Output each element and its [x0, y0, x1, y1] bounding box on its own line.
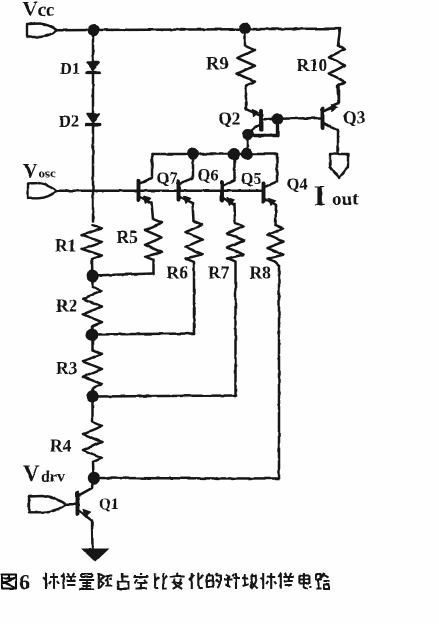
- wire Q2/Q3 base link: [278, 117, 322, 120]
- svg-text:Q1: Q1: [99, 496, 119, 513]
- label Q3: [343, 108, 366, 128]
- label R4: [50, 436, 72, 456]
- svg-text:R5: R5: [117, 227, 139, 247]
- node Q2 base / Q3 base junction: [272, 113, 284, 125]
- wire D1 to D2: [92, 73, 95, 115]
- svg-text:R6: R6: [167, 263, 189, 283]
- resistor R2: [83, 287, 102, 350]
- svg-text:I: I: [314, 180, 325, 212]
- svg-text:V: V: [23, 461, 40, 486]
- node R2/R3 junction: [86, 328, 98, 340]
- svg-text:Q3: Q3: [343, 108, 366, 128]
- resistor R1: [82, 225, 103, 287]
- wire R5 bottom to R1/R2 node: [93, 274, 154, 276]
- transistor Q5: [222, 154, 235, 223]
- input connector Vdrv: [29, 496, 67, 512]
- resistor R5: [145, 219, 162, 274]
- label Vdrv: [23, 461, 65, 486]
- label R9: [206, 55, 229, 75]
- wire R7 bottom to R3/R4 node: [93, 396, 236, 397]
- node at Vcc/D1 junction: [88, 24, 100, 36]
- svg-text:Q7: Q7: [157, 169, 178, 188]
- label Q2: [218, 109, 240, 129]
- label Iout: [314, 180, 359, 212]
- svg-text:Q4: Q4: [287, 175, 308, 194]
- svg-text:R3: R3: [56, 358, 78, 378]
- svg-text:6: 6: [19, 570, 30, 595]
- label Q1: [99, 496, 119, 513]
- label R3: [56, 358, 78, 378]
- resistor R4: [83, 422, 102, 478]
- svg-text:V: V: [23, 0, 38, 21]
- label Vosc: [23, 160, 56, 182]
- transistor Q7: [139, 154, 154, 219]
- svg-text:Q2: Q2: [218, 109, 240, 129]
- transistor Q6: [179, 154, 194, 221]
- transistor Q2 (diode-connected PNP): [246, 109, 277, 135]
- label Q7: [157, 169, 178, 188]
- resistor R6: [186, 221, 203, 334]
- svg-text:R7: R7: [208, 263, 230, 283]
- resistor R10: [329, 45, 345, 103]
- label R5: [117, 227, 139, 247]
- wire R8 bottom to R4/Q1 node: [94, 477, 279, 480]
- resistor R3: [83, 350, 102, 422]
- svg-text:D2: D2: [59, 112, 79, 131]
- svg-text:D1: D1: [60, 59, 80, 78]
- label R2: [56, 296, 77, 316]
- label Vcc: [23, 0, 55, 21]
- label Q5: [241, 169, 262, 188]
- node rail at Q2 drop: [241, 148, 253, 160]
- svg-text:R1: R1: [55, 236, 76, 256]
- svg-text:out: out: [332, 189, 359, 210]
- wire R6 bottom to R2/R3 node: [92, 334, 194, 335]
- node Q2 collector tie: [243, 129, 254, 140]
- label Q6: [198, 166, 219, 185]
- label D2: [59, 112, 79, 131]
- diode D1: [87, 62, 100, 73]
- label R7: [208, 263, 230, 283]
- node at R9 top: [239, 23, 251, 35]
- node R1/R2 junction: [86, 270, 98, 282]
- svg-text:R9: R9: [206, 55, 229, 75]
- svg-text:R2: R2: [56, 296, 77, 316]
- wire D2 down to R1 (crosses Vosc line): [92, 125, 95, 222]
- ground: [81, 549, 110, 563]
- wire Vdrv to Q1 base: [67, 503, 78, 506]
- wire Vcc node down to D1: [92, 30, 95, 62]
- svg-text:Q6: Q6: [198, 166, 219, 185]
- svg-text:cc: cc: [38, 0, 55, 21]
- node rail at Q5: [228, 148, 240, 160]
- wire base-collector tie of Q2: [248, 119, 278, 136]
- input connector Vosc: [28, 183, 57, 198]
- svg-text:R10: R10: [297, 55, 328, 75]
- output connector Iout: [330, 154, 348, 178]
- caption text strokes: [43, 573, 330, 589]
- label R8: [250, 263, 272, 283]
- label Q4: [287, 175, 308, 194]
- node rail at Q6: [187, 148, 199, 160]
- label R6: [167, 263, 189, 283]
- transistor Q1: [78, 478, 94, 549]
- svg-text:R8: R8: [250, 263, 272, 283]
- caption 图6 (figure caption): [2, 575, 16, 589]
- transistor Q4: [264, 154, 278, 225]
- input connector Vcc: [27, 24, 57, 38]
- resistor R8: [268, 225, 284, 479]
- wire Vosc base line: [57, 189, 262, 192]
- label D1: [60, 59, 80, 78]
- svg-text:drv: drv: [41, 469, 65, 486]
- svg-text:Q5: Q5: [241, 169, 262, 188]
- label R1: [55, 236, 76, 256]
- label R10: [297, 55, 328, 75]
- node R4/Q1 junction: [88, 472, 100, 484]
- wire Q2 collector down to mirror rail: [246, 136, 249, 153]
- resistor R7: [227, 223, 244, 396]
- wire current-mirror top rail: [152, 153, 277, 156]
- transistor Q3 (PNP): [323, 86, 340, 153]
- svg-text:V: V: [23, 160, 38, 182]
- diode D2: [87, 114, 100, 125]
- wire Vcc top rail: [57, 29, 340, 31]
- node R3/R4 junction: [86, 390, 98, 402]
- wire top rail corner down to R10: [338, 29, 340, 45]
- svg-text:osc: osc: [39, 166, 57, 181]
- svg-text:R4: R4: [50, 436, 72, 456]
- resistor R9: [237, 29, 255, 110]
